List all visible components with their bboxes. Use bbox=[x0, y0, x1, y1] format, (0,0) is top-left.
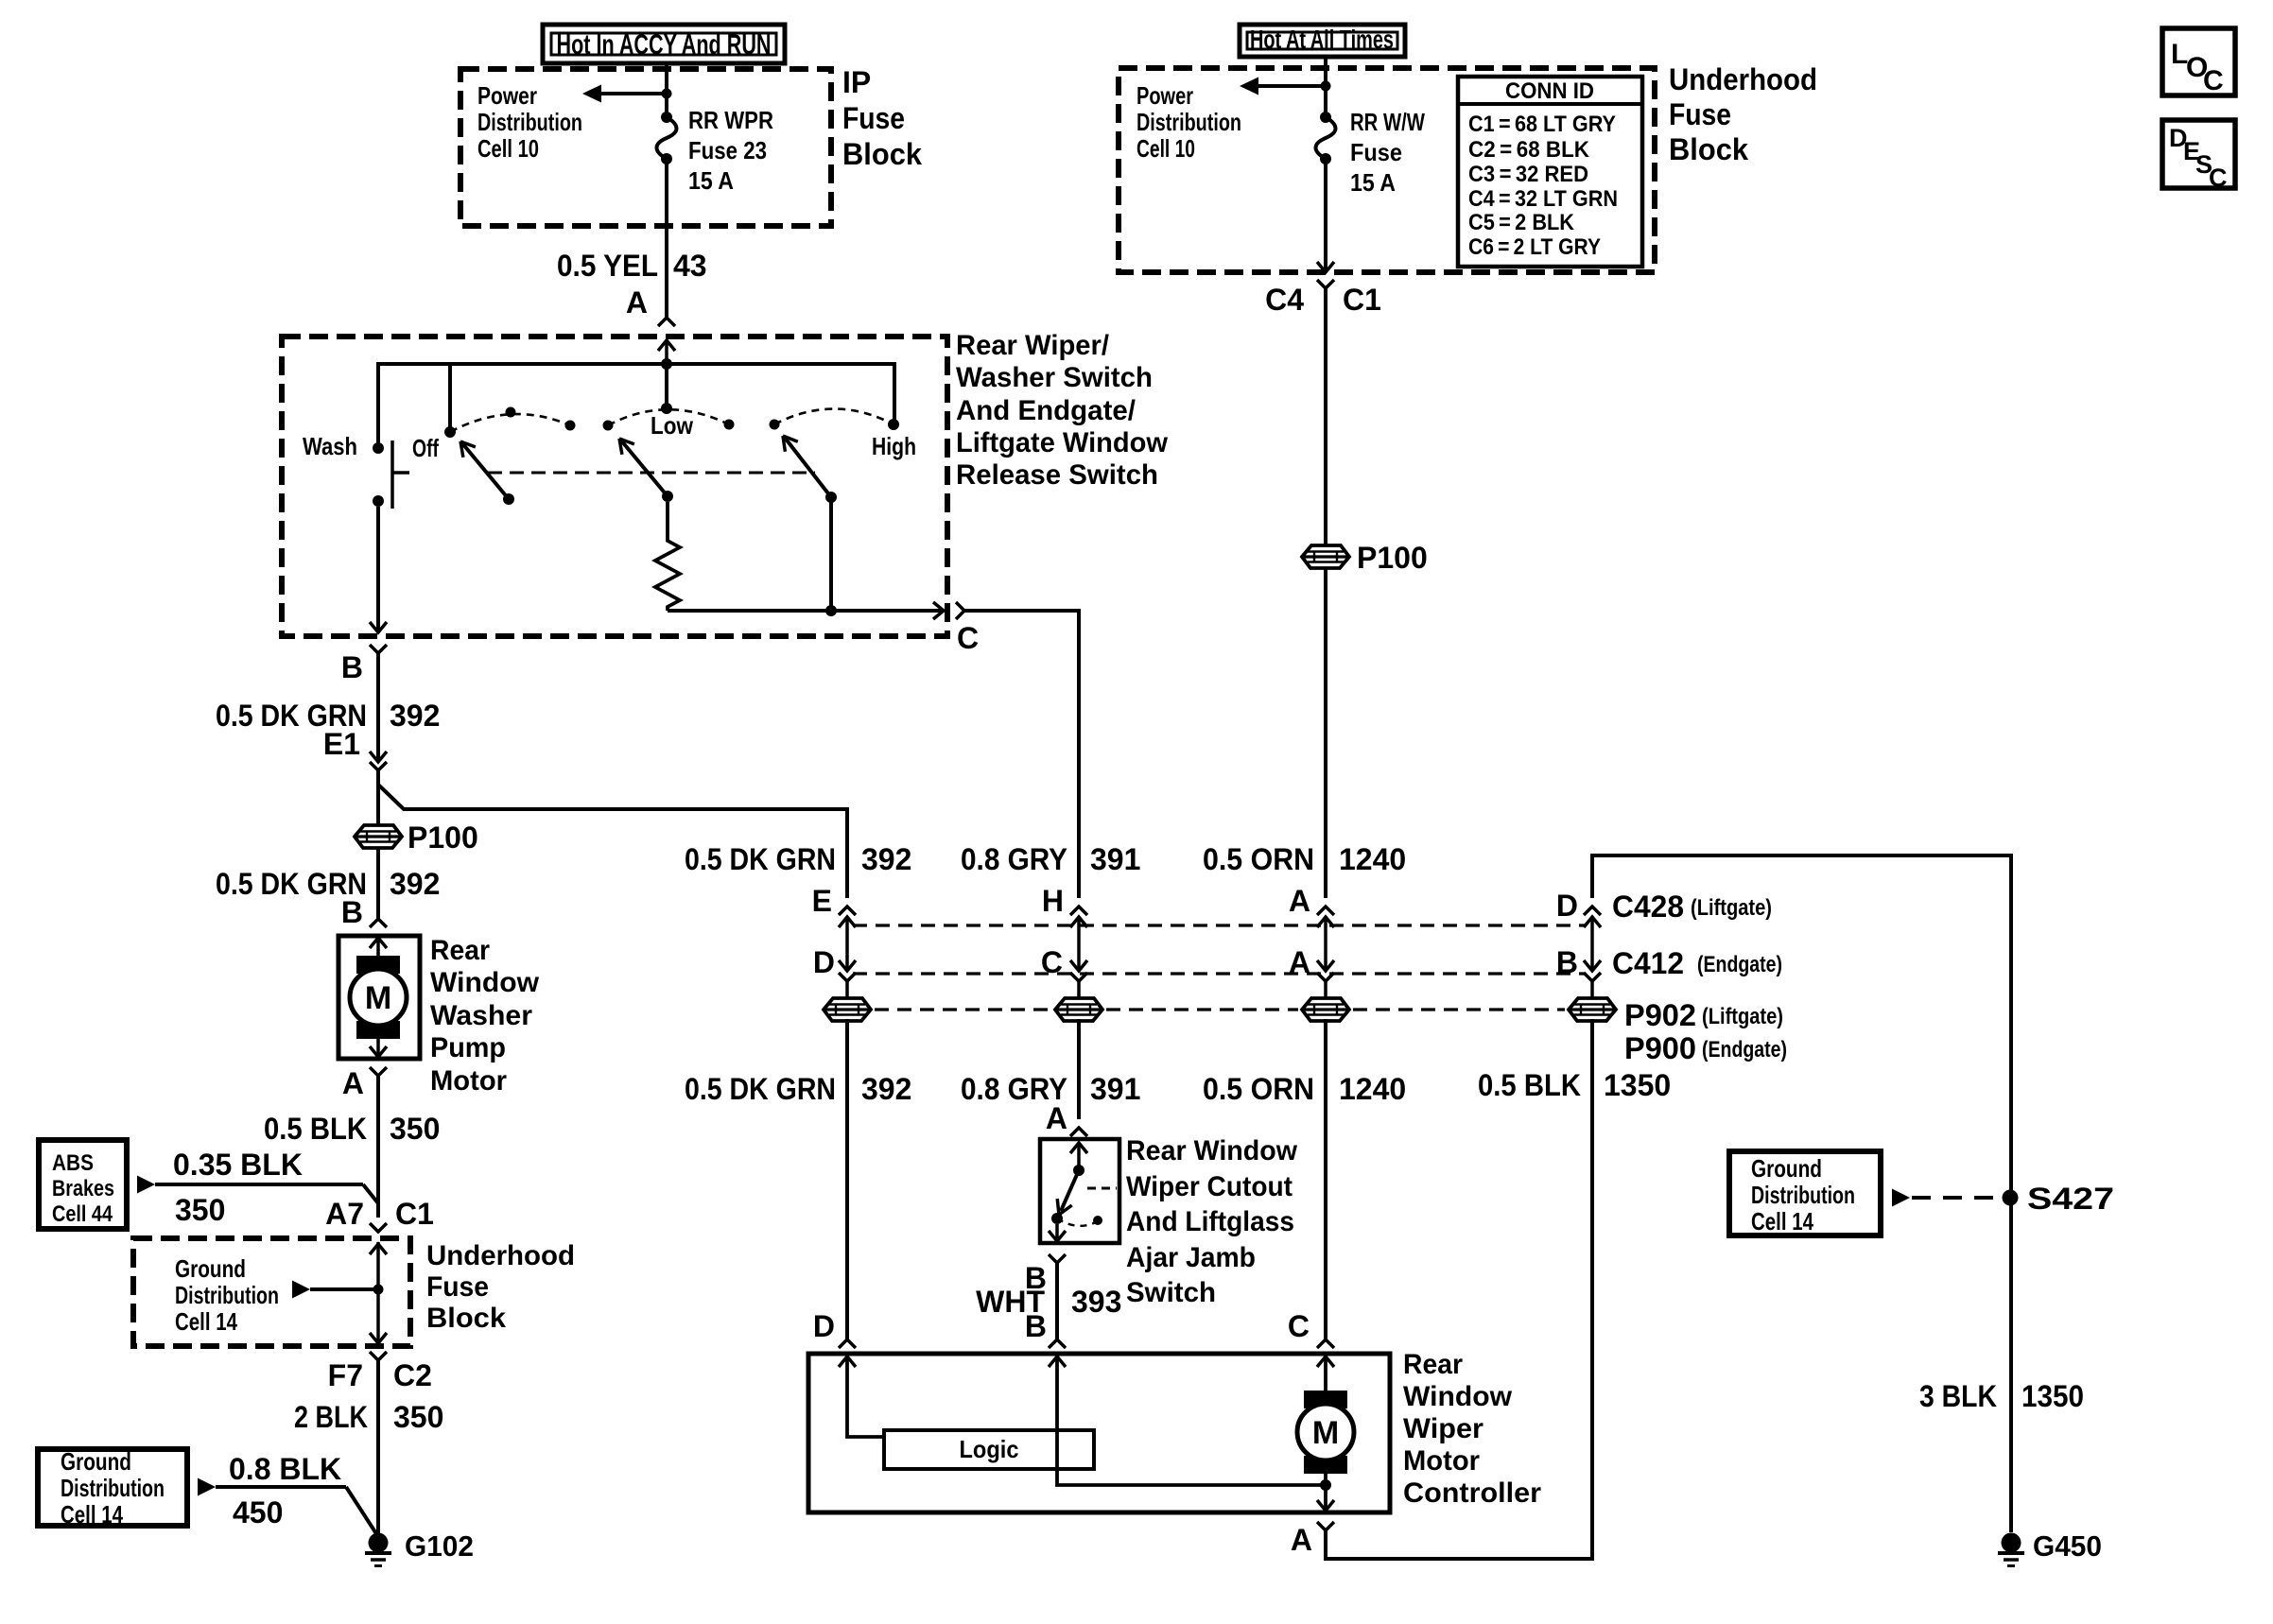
connector A at switch box bbox=[658, 318, 675, 364]
connector B at washer pump bbox=[370, 919, 387, 959]
svg-text:Window: Window bbox=[1403, 1381, 1513, 1412]
connector B at jamb switch bottom bbox=[1049, 1254, 1066, 1339]
arrow out of switch at C bbox=[933, 602, 944, 619]
svg-text:450: 450 bbox=[233, 1495, 283, 1529]
contact High arc left bbox=[770, 420, 780, 430]
label IP Fuse Block bbox=[842, 65, 922, 171]
svg-text:Washer Switch: Washer Switch bbox=[956, 362, 1153, 393]
svg-text:High: High bbox=[872, 432, 916, 460]
contact Off arc right bbox=[565, 421, 576, 431]
svg-text:Cell 10: Cell 10 bbox=[477, 134, 539, 163]
node bus junction bbox=[661, 358, 672, 370]
svg-text:2 BLK: 2 BLK bbox=[294, 1400, 368, 1434]
svg-text:0.35 BLK: 0.35 BLK bbox=[173, 1148, 303, 1182]
wire bus to Low contact bbox=[665, 364, 668, 406]
svg-text:15 A: 15 A bbox=[688, 166, 734, 195]
arrow out of controller at A bbox=[1317, 1500, 1334, 1511]
svg-text:Motor: Motor bbox=[1403, 1445, 1480, 1477]
switch arm Low position bbox=[619, 439, 673, 502]
arrow out of underhood block at F7 bbox=[370, 1333, 387, 1343]
connector C428 column x=1684 bbox=[1584, 907, 1601, 971]
Rear Window Washer Pump Motor box bbox=[338, 936, 420, 1059]
dashed travel arc at Low bbox=[608, 409, 729, 425]
svg-text:Underhood: Underhood bbox=[426, 1240, 575, 1271]
svg-text:Wiper: Wiper bbox=[1403, 1413, 1484, 1444]
node motor/B junction bbox=[1320, 1479, 1331, 1491]
svg-text:392: 392 bbox=[861, 1072, 911, 1106]
svg-text:D: D bbox=[813, 1309, 835, 1343]
svg-text:391: 391 bbox=[1090, 842, 1140, 876]
connector C412 column x=1141 bbox=[1070, 960, 1087, 1000]
svg-text:Fuse: Fuse bbox=[842, 101, 905, 135]
svg-text:350: 350 bbox=[175, 1193, 225, 1227]
svg-text:H: H bbox=[1042, 884, 1064, 918]
svg-text:391: 391 bbox=[1090, 1072, 1140, 1106]
svg-text:1350: 1350 bbox=[2021, 1379, 2084, 1413]
switch arm Off position bbox=[460, 441, 514, 505]
wire 0.8 GRY splice to jamb switch A bbox=[1077, 1019, 1081, 1119]
reference arrow to Power Distribution Cell 10 (right) bbox=[1240, 78, 1326, 95]
svg-text:0.5 ORN: 0.5 ORN bbox=[1203, 1072, 1314, 1106]
svg-text:C2 = 68 BLK: C2 = 68 BLK bbox=[1468, 137, 1590, 163]
svg-text:Cell 44: Cell 44 bbox=[52, 1201, 113, 1227]
label Underhood Fuse Block (top) bbox=[1669, 62, 1817, 166]
resistor low-speed dropping bbox=[655, 502, 680, 611]
jamb switch arm bbox=[1057, 1170, 1079, 1215]
svg-text:Block: Block bbox=[1669, 132, 1748, 166]
Underhood Fuse Block dashed box (top) bbox=[1119, 68, 1655, 272]
washer momentary contact bar bbox=[392, 441, 409, 509]
label C412 (Endgate) bbox=[1612, 946, 1782, 980]
svg-text:Fuse: Fuse bbox=[1350, 138, 1402, 166]
switch arm High position bbox=[783, 436, 837, 503]
connector A at controller bottom bbox=[1317, 1019, 1592, 1559]
svg-text:Underhood: Underhood bbox=[1669, 62, 1817, 96]
svg-text:Ground: Ground bbox=[1751, 1154, 1822, 1183]
svg-text:Cell 14: Cell 14 bbox=[175, 1307, 237, 1336]
wire 0.5 YEL 43 from fuse to switch pin A bbox=[665, 159, 668, 318]
svg-text:B: B bbox=[341, 895, 363, 929]
connector C412 column x=896 bbox=[839, 960, 856, 1000]
splice node S427 bbox=[2003, 1190, 2019, 1206]
wire 0.5 ORN from P100 down to liftgate rows bbox=[1324, 568, 1327, 898]
LOC index box bbox=[2162, 28, 2235, 96]
wire High arm to output bus bbox=[829, 501, 833, 611]
connector C4/C1 bbox=[1317, 280, 1334, 546]
svg-text:C1: C1 bbox=[1343, 283, 1381, 317]
reference arrow to Power Distribution Cell 10 bbox=[582, 85, 667, 103]
arrow out of pump at A bbox=[370, 1046, 387, 1057]
svg-text:Hot At All Times: Hot At All Times bbox=[1250, 25, 1394, 54]
svg-text:C412: C412 bbox=[1612, 946, 1684, 980]
reference arrow from ground distribution (right) bbox=[1892, 1189, 1910, 1207]
label RR W/W Fuse 15 A bbox=[1350, 108, 1425, 197]
wire controller D input to logic bbox=[847, 1356, 884, 1437]
wire controller B input to motor bbox=[1057, 1356, 1326, 1485]
svg-text:392: 392 bbox=[390, 699, 440, 733]
svg-text:Ground: Ground bbox=[61, 1447, 131, 1476]
svg-text:RR WPR: RR WPR bbox=[688, 106, 773, 134]
splice P100 (washer feed) bbox=[355, 825, 402, 848]
svg-text:3 BLK: 3 BLK bbox=[1919, 1379, 1997, 1413]
Rear Window Wiper Motor Controller box bbox=[808, 1354, 1390, 1512]
connector C428 column x=1402 bbox=[1317, 907, 1334, 971]
svg-text:And Endgate/: And Endgate/ bbox=[956, 395, 1136, 426]
svg-text:P902: P902 bbox=[1624, 998, 1696, 1032]
svg-text:And Liftglass: And Liftglass bbox=[1126, 1206, 1294, 1237]
label Power Distribution Cell 10 (IP) bbox=[477, 81, 582, 163]
svg-text:IP: IP bbox=[842, 65, 871, 99]
svg-text:P100: P100 bbox=[1357, 541, 1428, 575]
svg-text:C1: C1 bbox=[395, 1197, 434, 1231]
fuse RR W/W Fuse 15 A bbox=[1320, 112, 1331, 123]
node junction at underhood fuse feed bbox=[1321, 81, 1331, 92]
wire jamb lower contact to pin B bbox=[1055, 1224, 1059, 1241]
svg-text:C4 = 32 LT GRN: C4 = 32 LT GRN bbox=[1468, 186, 1618, 212]
wire 0.5 ORN splice to controller C bbox=[1324, 1019, 1327, 1339]
connector C412 column x=1402 bbox=[1317, 960, 1334, 1000]
svg-text:C1 = 68 LT GRY: C1 = 68 LT GRY bbox=[1468, 112, 1616, 137]
svg-text:Distribution: Distribution bbox=[175, 1281, 279, 1309]
svg-text:A: A bbox=[1046, 1101, 1067, 1135]
ground G450 bbox=[2002, 1533, 2021, 1553]
svg-text:(Liftgate): (Liftgate) bbox=[1702, 1004, 1783, 1029]
wire 0.5 DK GRN splice to controller D bbox=[845, 1019, 849, 1339]
svg-text:0.5 BLK: 0.5 BLK bbox=[1478, 1068, 1581, 1102]
svg-text:C: C bbox=[957, 621, 979, 655]
svg-text:B: B bbox=[341, 650, 363, 684]
svg-text:0.5 BLK: 0.5 BLK bbox=[264, 1112, 367, 1146]
svg-text:D: D bbox=[1556, 889, 1578, 923]
svg-text:Ground: Ground bbox=[175, 1254, 246, 1283]
dashed travel arc at High bbox=[774, 409, 894, 425]
CONN ID table bbox=[1458, 77, 1642, 267]
svg-text:M: M bbox=[1312, 1415, 1339, 1451]
svg-text:A: A bbox=[1291, 1523, 1312, 1557]
svg-text:C3 = 32 RED: C3 = 32 RED bbox=[1468, 162, 1588, 187]
svg-text:D: D bbox=[813, 945, 835, 979]
connector C412 column x=1684 bbox=[1584, 960, 1601, 1000]
Rear Window Wiper Cutout jamb switch box bbox=[1040, 1139, 1119, 1243]
ground G102 bbox=[369, 1533, 389, 1553]
wire from Hot In ACCY title into fuse block bbox=[665, 63, 668, 117]
contact Low arc right bbox=[724, 420, 735, 430]
Logic box bbox=[884, 1430, 1094, 1469]
splice row P902/P900 dashed line bbox=[875, 1008, 1565, 1011]
svg-text:Pump: Pump bbox=[430, 1032, 506, 1063]
svg-text:Motor: Motor bbox=[430, 1065, 507, 1097]
reference arrow from ground distribution (left) bbox=[198, 1478, 346, 1496]
svg-text:Release Switch: Release Switch bbox=[956, 459, 1158, 491]
wire pump motor to pin A bbox=[376, 1037, 380, 1057]
contact High bbox=[888, 419, 899, 430]
svg-text:Distribution: Distribution bbox=[1136, 108, 1241, 136]
svg-text:(Endgate): (Endgate) bbox=[1697, 952, 1782, 977]
svg-text:P100: P100 bbox=[408, 821, 478, 855]
jamb switch top contact bbox=[1073, 1165, 1084, 1176]
title box 'Hot In ACCY And RUN' bbox=[543, 25, 785, 63]
svg-text:Off: Off bbox=[412, 434, 439, 462]
arrow out of jamb switch at B bbox=[1049, 1231, 1066, 1241]
svg-text:393: 393 bbox=[1071, 1285, 1121, 1319]
svg-text:Wash: Wash bbox=[303, 432, 357, 460]
svg-text:Logic: Logic bbox=[960, 1435, 1019, 1463]
svg-text:C: C bbox=[1288, 1309, 1310, 1343]
label RR WPR Fuse 23 15 A bbox=[688, 106, 773, 195]
splice P100 (power feed) bbox=[1302, 545, 1349, 568]
svg-text:Block: Block bbox=[426, 1303, 506, 1334]
wire fuse to C4/C1 connector bbox=[1324, 159, 1327, 272]
label Ground Distribution Cell 14 (left) bbox=[61, 1447, 165, 1529]
wire 0.5 BLK liftgate top run bbox=[1592, 855, 2011, 1532]
mechanical link dashed line bbox=[488, 472, 815, 475]
svg-text:Hot In ACCY And RUN: Hot In ACCY And RUN bbox=[557, 29, 772, 60]
svg-text:392: 392 bbox=[390, 867, 440, 901]
svg-text:Distribution: Distribution bbox=[61, 1474, 165, 1502]
svg-text:350: 350 bbox=[393, 1400, 443, 1434]
svg-text:15 A: 15 A bbox=[1350, 168, 1396, 197]
wire controller C input to motor bbox=[1324, 1356, 1327, 1391]
connector C at switch box right bbox=[956, 602, 1079, 898]
connector A7/C1 at underhood fuse block bbox=[370, 1223, 387, 1343]
dashed connector row C428 bbox=[853, 924, 1585, 926]
svg-text:F7: F7 bbox=[328, 1358, 363, 1392]
label ABS Brakes Cell 44 bbox=[52, 1150, 114, 1227]
svg-text:Controller: Controller bbox=[1403, 1477, 1541, 1509]
label Ground Distribution Cell 14 (right) bbox=[1751, 1154, 1855, 1235]
svg-text:C4: C4 bbox=[1265, 283, 1304, 317]
splice P902 black wire bbox=[1569, 998, 1616, 1021]
svg-text:C: C bbox=[2203, 65, 2224, 96]
label P900 (Endgate) bbox=[1624, 1031, 1787, 1065]
contact Wash lower bbox=[373, 495, 384, 507]
svg-text:Cell 14: Cell 14 bbox=[1751, 1207, 1813, 1235]
svg-text:0.8 GRY: 0.8 GRY bbox=[961, 842, 1067, 876]
arrow out of underhood block at C4 bbox=[1317, 262, 1334, 272]
svg-text:Block: Block bbox=[842, 137, 922, 171]
washer pump motor M bbox=[356, 956, 400, 974]
svg-text:Rear Wiper/: Rear Wiper/ bbox=[956, 330, 1110, 361]
svg-text:A7: A7 bbox=[325, 1197, 364, 1231]
wire ground branch to G102 bbox=[346, 1487, 377, 1535]
svg-text:1240: 1240 bbox=[1339, 842, 1406, 876]
fuse RR WPR Fuse 23 15 A bbox=[661, 112, 672, 123]
dashed wire to splice S427 bbox=[1912, 1196, 1997, 1200]
svg-text:1350: 1350 bbox=[1604, 1068, 1671, 1102]
svg-text:A: A bbox=[342, 1066, 364, 1100]
svg-text:C2: C2 bbox=[393, 1358, 432, 1392]
connector A at jamb switch bbox=[1070, 1128, 1087, 1166]
svg-text:Distribution: Distribution bbox=[1751, 1181, 1855, 1209]
ABS Brakes Cell 44 box bbox=[39, 1140, 127, 1229]
label Underhood Fuse Block (ground) bbox=[426, 1240, 575, 1334]
svg-text:E1: E1 bbox=[323, 727, 360, 761]
reference arrow from ABS Brakes cell bbox=[137, 1176, 363, 1194]
svg-text:0.5 DK GRN: 0.5 DK GRN bbox=[685, 1072, 836, 1106]
arrow out of switch at B bbox=[370, 622, 387, 632]
IP Fuse Block dashed box bbox=[460, 69, 831, 226]
svg-text:43: 43 bbox=[673, 249, 707, 283]
svg-text:C428: C428 bbox=[1612, 890, 1684, 924]
svg-text:Low: Low bbox=[651, 411, 694, 440]
splice P902 green wire bbox=[824, 998, 871, 1021]
Rear Wiper/Washer Switch dashed box bbox=[282, 337, 947, 636]
splice P902 gray wire bbox=[1055, 998, 1102, 1021]
node ground distribution junction bbox=[373, 1285, 384, 1295]
svg-text:0.8 BLK: 0.8 BLK bbox=[229, 1452, 341, 1486]
svg-text:0.5 ORN: 0.5 ORN bbox=[1203, 842, 1314, 876]
contact Low top bbox=[661, 403, 672, 414]
jamb switch dashed detent line bbox=[1087, 1187, 1117, 1190]
svg-text:S427: S427 bbox=[2027, 1182, 2114, 1216]
svg-text:Cell 10: Cell 10 bbox=[1136, 134, 1195, 163]
svg-text:Wiper Cutout: Wiper Cutout bbox=[1126, 1171, 1293, 1202]
connector B at controller bbox=[1049, 1339, 1066, 1367]
svg-text:ABS: ABS bbox=[52, 1150, 94, 1176]
Ground Distribution Cell 14 box (right) bbox=[1729, 1151, 1881, 1235]
svg-text:Washer: Washer bbox=[430, 1000, 532, 1031]
svg-text:Brakes: Brakes bbox=[52, 1176, 114, 1201]
svg-text:C6 = 2 LT GRY: C6 = 2 LT GRY bbox=[1468, 234, 1601, 260]
svg-text:Fuse: Fuse bbox=[426, 1271, 489, 1303]
label C428 (Liftgate) bbox=[1612, 890, 1772, 924]
contact Low arc left bbox=[603, 421, 614, 431]
svg-text:Rear: Rear bbox=[430, 935, 490, 966]
svg-text:P900: P900 bbox=[1624, 1031, 1696, 1065]
svg-text:Rear: Rear bbox=[1403, 1349, 1463, 1380]
svg-text:C5 = 2 BLK: C5 = 2 BLK bbox=[1468, 210, 1575, 235]
wire motor to node and pin A bbox=[1324, 1461, 1327, 1511]
svg-text:Rear Window: Rear Window bbox=[1126, 1135, 1298, 1166]
dashed connector row C412 bbox=[853, 972, 1585, 975]
contact Off arc mid bbox=[506, 407, 516, 418]
svg-text:0.5 DK GRN: 0.5 DK GRN bbox=[685, 842, 836, 876]
svg-text:Distribution: Distribution bbox=[477, 108, 582, 136]
label P902 (Liftgate) bbox=[1624, 998, 1783, 1032]
wire branch E1 to liftgate harness bbox=[378, 785, 847, 898]
svg-text:C: C bbox=[2209, 164, 2228, 192]
svg-text:E: E bbox=[812, 884, 832, 918]
svg-text:Power: Power bbox=[1136, 81, 1193, 110]
svg-text:Window: Window bbox=[430, 967, 540, 998]
label Ground Distribution Cell 14 (underhood) bbox=[175, 1254, 279, 1336]
svg-text:Fuse 23: Fuse 23 bbox=[688, 136, 767, 164]
reference arrow to Ground Distribution Cell 14 bbox=[292, 1281, 378, 1299]
svg-text:Liftgate Window: Liftgate Window bbox=[956, 427, 1169, 458]
svg-text:Switch: Switch bbox=[1126, 1277, 1216, 1308]
DESC index box bbox=[2162, 120, 2235, 192]
connector C428 column x=1141 bbox=[1070, 907, 1087, 971]
svg-text:RR W/W: RR W/W bbox=[1350, 108, 1425, 136]
Underhood Fuse Block dashed box (ground distribution) bbox=[133, 1238, 410, 1346]
wiper motor M in controller bbox=[1304, 1391, 1347, 1408]
svg-text:Fuse: Fuse bbox=[1669, 97, 1731, 131]
connector F7/C2 bbox=[370, 1352, 387, 1533]
svg-text:M: M bbox=[365, 980, 391, 1016]
svg-text:1240: 1240 bbox=[1339, 1072, 1406, 1106]
svg-text:392: 392 bbox=[861, 842, 911, 876]
label Rear Window Wiper Cutout And Liftglass Ajar Jamb Switch bbox=[1126, 1135, 1298, 1308]
connector E1 bbox=[370, 752, 387, 827]
svg-text:B: B bbox=[1025, 1309, 1047, 1343]
splice P902 orange wire bbox=[1302, 998, 1349, 1021]
svg-text:G450: G450 bbox=[2033, 1529, 2102, 1563]
connector D at controller bbox=[839, 1339, 856, 1367]
svg-text:A: A bbox=[1289, 884, 1310, 918]
Ground Distribution Cell 14 box (left) bbox=[38, 1449, 187, 1526]
label Power Distribution Cell 10 (underhood) bbox=[1136, 81, 1241, 163]
label Rear Window Washer Pump Motor bbox=[430, 935, 540, 1097]
svg-text:G102: G102 bbox=[405, 1529, 474, 1563]
jamb switch lower contact bbox=[1051, 1213, 1063, 1224]
svg-text:(Liftgate): (Liftgate) bbox=[1691, 895, 1772, 921]
wire resistor output bus to pin C bbox=[668, 609, 942, 613]
svg-text:(Endgate): (Endgate) bbox=[1702, 1037, 1787, 1063]
label Rear Window Wiper Motor Controller bbox=[1403, 1349, 1541, 1509]
svg-text:0.5 YEL: 0.5 YEL bbox=[557, 249, 658, 283]
svg-text:350: 350 bbox=[390, 1112, 440, 1146]
svg-text:CONN ID: CONN ID bbox=[1505, 78, 1594, 104]
connector C at controller bbox=[1317, 1339, 1334, 1367]
wire ABS splice into pump ground bbox=[363, 1184, 378, 1203]
node High arm junction bbox=[825, 605, 837, 616]
wire wash contact to pin B bbox=[376, 507, 380, 632]
label Rear Wiper/Washer Switch And Endgate/Liftgate Window Release Switch bbox=[956, 330, 1169, 491]
node junction at IP fuse feed bbox=[662, 89, 672, 99]
contact Off bbox=[444, 426, 456, 438]
contact Wash upper bbox=[373, 442, 384, 454]
svg-text:A: A bbox=[626, 285, 648, 320]
connector C428 column x=896 bbox=[839, 907, 856, 971]
wire from Hot At All Times title into fuse block bbox=[1324, 57, 1327, 117]
connector B at switch box bottom bbox=[370, 645, 387, 762]
jamb switch dashed travel arc bbox=[1057, 1216, 1102, 1226]
svg-text:Ajar Jamb: Ajar Jamb bbox=[1126, 1242, 1256, 1273]
dashed travel arc at Off bbox=[450, 414, 570, 432]
svg-text:Power: Power bbox=[477, 81, 537, 110]
title box 'Hot At All Times' bbox=[1240, 25, 1405, 57]
connector A at washer pump bottom bbox=[370, 1067, 387, 1218]
wire bus to Off contact bbox=[448, 364, 452, 427]
wire P100 to washer pump bbox=[376, 847, 380, 919]
switch feed bus wire bbox=[378, 364, 894, 444]
svg-text:Cell 14: Cell 14 bbox=[61, 1500, 123, 1529]
